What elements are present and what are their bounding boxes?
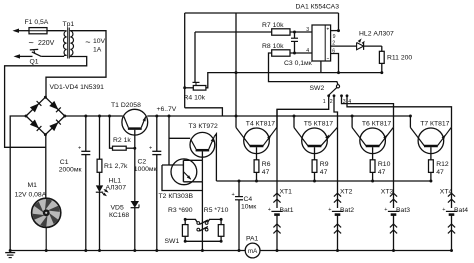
pin 9 wire to top rail xyxy=(331,30,339,32)
fuse F1 0,5A xyxy=(29,28,47,34)
diode VD3 (bridge bottom-left) xyxy=(30,120,39,129)
battery Bat4 xyxy=(446,210,457,212)
node C1 tap xyxy=(84,115,87,118)
svg-text:R10: R10 xyxy=(378,161,391,168)
svg-text:R12: R12 xyxy=(436,161,449,168)
svg-text:3: 3 xyxy=(306,27,309,33)
wire R4 wiper up to R7 line xyxy=(194,32,196,82)
bridge rectifier VD1-VD4 diamond xyxy=(26,97,65,134)
node distribution rail taps xyxy=(235,71,238,74)
svg-text:VD5: VD5 xyxy=(111,205,124,212)
svg-text:+: + xyxy=(78,146,81,152)
node R2 tap xyxy=(108,115,111,118)
wire collector to +6,7V bus xyxy=(293,116,295,128)
svg-text:220V: 220V xyxy=(38,40,55,47)
wire secondary top to bridge top corner xyxy=(46,31,106,97)
pin 4 wire xyxy=(290,52,312,54)
svg-text:10V: 10V xyxy=(93,38,106,45)
svg-text:T1 D2058: T1 D2058 xyxy=(111,102,141,109)
ground symbol xyxy=(5,252,15,254)
wire +6,7V rail from T1 emitter xyxy=(147,115,410,117)
switch Q1 xyxy=(32,52,41,57)
resistor R8 10k xyxy=(272,50,290,56)
svg-text:XT2: XT2 xyxy=(340,189,353,196)
wire SW2 contact 1 to T4 emitter xyxy=(277,96,329,127)
connector XT4 lower xyxy=(451,215,453,251)
svg-text:+: + xyxy=(442,207,445,213)
wire collector to +6,7V bus xyxy=(351,116,353,128)
svg-text:9: 9 xyxy=(333,34,336,40)
svg-text:Bat1: Bat1 xyxy=(280,207,294,214)
svg-text:+: + xyxy=(327,27,330,32)
node bridge corners xyxy=(44,96,47,99)
wire secondary bottom to left border down to bridge bottom corner xyxy=(5,56,87,148)
wire bridge minus (left corner) down to ground bus xyxy=(10,116,26,251)
SW2 contact 1 xyxy=(327,94,330,97)
svg-text:10мк: 10мк xyxy=(241,204,256,211)
svg-text:DA1 К554СА3: DA1 К554СА3 xyxy=(296,4,340,11)
svg-text:T7 КТ817: T7 КТ817 xyxy=(420,121,449,128)
svg-text:2: 2 xyxy=(332,41,335,47)
svg-text:SW2: SW2 xyxy=(310,85,325,92)
svg-text:2: 2 xyxy=(330,99,333,105)
svg-text:+: + xyxy=(149,146,152,152)
node R1 tap xyxy=(98,115,101,118)
wire supply leg x=236 down to bus and T4 collector xyxy=(235,13,237,73)
svg-text:Bat3: Bat3 xyxy=(396,207,410,214)
svg-text:+: + xyxy=(384,207,387,213)
svg-text:T2 КП303В: T2 КП303В xyxy=(159,193,194,200)
resistor R10 47 xyxy=(372,147,374,160)
svg-text:Tp1: Tp1 xyxy=(63,21,75,28)
svg-text:T4 КТ817: T4 КТ817 xyxy=(246,121,275,128)
svg-text:R3 *690: R3 *690 xyxy=(168,207,193,214)
svg-text:R9: R9 xyxy=(320,161,329,168)
capacitor C2 1000mk xyxy=(155,115,158,118)
svg-text:~: ~ xyxy=(29,38,34,48)
transformer secondary winding xyxy=(70,31,73,56)
wire SW2 contact 4 to T7 emitter xyxy=(347,96,452,127)
connector XT3 lower xyxy=(393,215,395,251)
svg-text:HL2 АЛ307: HL2 АЛ307 xyxy=(359,31,394,38)
svg-text:mA: mA xyxy=(248,248,258,255)
svg-text:+: + xyxy=(328,207,331,213)
svg-text:6: 6 xyxy=(332,49,335,55)
capacitor C1 2000mk xyxy=(85,116,87,151)
resistor R9 47 xyxy=(314,147,316,160)
svg-text:12V 0,08A: 12V 0,08A xyxy=(15,192,47,199)
svg-text:VD1-VD4 1N5391: VD1-VD4 1N5391 xyxy=(50,84,105,91)
wire gate line into T2 xyxy=(162,164,183,166)
wire collector to +6,7V bus xyxy=(409,116,411,128)
svg-text:1A: 1A xyxy=(93,47,102,54)
svg-text:47: 47 xyxy=(262,169,270,176)
wire + bus from bridge to T1 collector xyxy=(65,115,123,117)
LED HL1 AL307 xyxy=(96,185,103,192)
svg-text:Bat4: Bat4 xyxy=(454,207,468,214)
wire T2 drain stub to T3 base column xyxy=(183,159,202,161)
svg-text:4: 4 xyxy=(306,48,309,54)
resistor R7 10k xyxy=(195,31,272,33)
connector XT2 lower xyxy=(337,215,339,251)
wire ground bus xyxy=(10,250,245,252)
resistor R6 47 xyxy=(256,147,258,160)
wire fan to ground bus xyxy=(45,227,47,250)
wire base drive rail from T3 emitter xyxy=(216,180,431,182)
svg-text:M1: M1 xyxy=(28,182,38,189)
svg-text:R7 10k: R7 10k xyxy=(262,22,284,29)
connector XT1 upper xyxy=(276,109,278,208)
wire mains line L (to fuse F1) with arrow xyxy=(13,29,20,33)
svg-text:T5 КТ817: T5 КТ817 xyxy=(304,121,333,128)
svg-text:PA1: PA1 xyxy=(246,236,259,243)
svg-text:R5 *710: R5 *710 xyxy=(204,207,229,214)
svg-text:Bat2: Bat2 xyxy=(340,207,354,214)
wire fuse to transformer primary xyxy=(47,30,64,32)
svg-text:47: 47 xyxy=(436,169,444,176)
wire T2 source stub to column xyxy=(183,181,202,183)
svg-text:R11 200: R11 200 xyxy=(387,55,412,62)
wire collector to +6,7V bus xyxy=(235,116,237,128)
diode VD2 (bridge top-right) xyxy=(49,101,58,110)
wire R8 left lead down to SW2 wiper xyxy=(269,53,339,85)
svg-text:Q1: Q1 xyxy=(30,59,39,66)
svg-text:XT1: XT1 xyxy=(280,189,293,196)
wire switch Q1 to transformer primary xyxy=(41,55,64,57)
svg-text:T6 КТ817: T6 КТ817 xyxy=(362,121,391,128)
SW2 contact 4 xyxy=(346,94,349,97)
wire top rail right leg down to DA1 pin xyxy=(338,13,340,31)
fan motor M1 12V 0,08A xyxy=(32,198,61,227)
svg-text:АЛ307: АЛ307 xyxy=(106,185,127,192)
resistor R12 47 xyxy=(430,147,432,160)
wire R4 right lead up to +6,7V distribution rail xyxy=(206,73,382,88)
wire top rail left leg down to bus xyxy=(184,13,186,108)
svg-text:R8 10k: R8 10k xyxy=(262,43,284,50)
battery Bat3 xyxy=(388,210,399,212)
svg-text:+6..7V: +6..7V xyxy=(157,106,177,113)
resistor R1 2,7k xyxy=(99,116,101,159)
svg-text:HL1: HL1 xyxy=(109,178,122,185)
connector XT1 lower xyxy=(276,215,278,251)
svg-text:C1: C1 xyxy=(60,159,69,166)
svg-text:F1 0,5A: F1 0,5A xyxy=(25,19,49,26)
svg-text:R6: R6 xyxy=(262,161,271,168)
SW2 contact 3 xyxy=(340,94,343,97)
svg-text:C2: C2 xyxy=(137,159,146,166)
wire SW2 contact 3 to T6 emitter xyxy=(342,96,394,127)
pin 3 wire xyxy=(290,31,312,33)
potentiometer R4 10k xyxy=(193,86,206,91)
svg-text:+: + xyxy=(232,192,235,198)
pin 2 output wire xyxy=(331,45,357,47)
svg-text:1000мк: 1000мк xyxy=(134,166,157,173)
diode VD4 (bridge bottom-right) xyxy=(49,122,58,131)
resistor R11 200 xyxy=(381,46,383,51)
svg-text:КС168: КС168 xyxy=(109,212,129,219)
capacitor C4 10mk xyxy=(238,180,241,183)
SW2 contact 2 xyxy=(333,94,336,97)
zener diode VD5 KS168 xyxy=(134,148,136,201)
wire T2 gate return loop xyxy=(162,165,202,191)
node T1 base / R2 / VD5 xyxy=(133,147,136,150)
svg-text:2000мк: 2000мк xyxy=(59,167,82,174)
svg-text:+: + xyxy=(268,207,271,213)
svg-text:T3 КТ972: T3 КТ972 xyxy=(189,123,218,130)
battery Bat1 xyxy=(271,210,282,212)
svg-text:R1 2,7k: R1 2,7k xyxy=(104,163,128,170)
connector XT2 upper xyxy=(337,127,339,208)
wire mains line N with arrow xyxy=(14,54,21,58)
diode VD1 (bridge top-left) xyxy=(30,103,39,112)
wire R4 left lead xyxy=(185,87,194,89)
transistor T2 KP303V xyxy=(171,159,197,185)
svg-text:1: 1 xyxy=(323,99,326,105)
connector XT3 upper xyxy=(393,127,395,208)
svg-text:–: – xyxy=(327,56,330,61)
battery Bat2 xyxy=(332,210,343,212)
svg-text:SW1: SW1 xyxy=(165,238,180,245)
wire SW2 contact 2 to T5 emitter xyxy=(334,96,338,127)
wire top supply rail xyxy=(185,12,339,14)
wire T3 collector feed and T2 gate feed xyxy=(168,115,171,118)
svg-text:C4: C4 xyxy=(244,196,253,203)
transformer core xyxy=(67,28,69,59)
svg-text:47: 47 xyxy=(320,169,328,176)
pin bottom wire xyxy=(320,61,322,73)
svg-text:R2 1k: R2 1k xyxy=(113,137,131,144)
pin 6 wire down to rail xyxy=(331,54,339,73)
svg-text:R4 10k: R4 10k xyxy=(184,95,206,102)
svg-text:С3 0,1мк: С3 0,1мк xyxy=(284,60,312,67)
connector XT4 upper xyxy=(451,127,453,208)
capacitor C3 0,1mk xyxy=(293,31,296,34)
svg-text:~: ~ xyxy=(85,37,90,47)
resistor R2 1k xyxy=(110,116,113,148)
svg-text:47: 47 xyxy=(378,169,386,176)
